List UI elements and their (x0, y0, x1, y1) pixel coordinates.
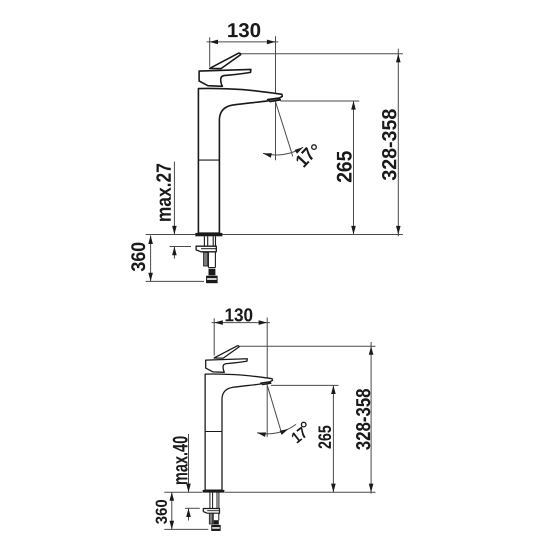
arrow 130 left (209, 40, 218, 45)
arrow arc left bottom (257, 432, 266, 437)
arrow arc left (263, 153, 272, 157)
dim text 360 bottom (156, 500, 167, 524)
arrow max.40 up (186, 508, 191, 517)
degree circle bottom (301, 422, 306, 427)
threaded stud bottom (hatched) (209, 513, 212, 524)
wire ext right 130 bottom / angle ref (266, 318, 268, 437)
wire max.40 upper shaft (188, 434, 190, 492)
shank tube lines (204, 236, 215, 246)
dim text 360 top (131, 243, 145, 272)
wire max.27 lower level (170, 246, 192, 248)
arrow 360 up (148, 235, 153, 244)
arrow 130 left bottom (214, 320, 223, 325)
wire angle slant 17deg (276, 103, 293, 157)
arrow 328-358 up bottom (369, 346, 374, 355)
angle arc bottom (257, 424, 296, 433)
dim text 328-358 top (382, 109, 396, 180)
arrow 265 up bottom (331, 385, 336, 394)
fork washer bottom (203, 509, 219, 514)
wire countertop right bottom (225, 491, 376, 493)
hose end fitting (207, 276, 218, 283)
wire max.40 lower shaft (188, 508, 190, 520)
mounting hardware top view (204, 236, 215, 246)
wire angle slant bottom (267, 386, 281, 434)
arrow 328-358 up (396, 54, 401, 63)
faucet top view (195, 53, 282, 236)
wire countertop left bottom (164, 491, 202, 493)
wire max.27 lower shaft (173, 247, 175, 259)
arrow 328-358 down bottom (369, 484, 374, 493)
wire max.27 upper shaft (173, 162, 175, 235)
shank tube lines bottom (210, 492, 219, 508)
wire ext left 130 bottom (213, 318, 215, 355)
wire countertop left (146, 234, 196, 236)
arrow 328-358 down (396, 226, 401, 235)
faucet bottom view (scaled reuse) (203, 346, 273, 493)
dim text 265 top (337, 151, 352, 182)
wire ext left 130 (209, 37, 211, 67)
arrow max.27 down (172, 226, 177, 235)
wire dim line 360 (150, 235, 152, 281)
dim text 130 top (228, 23, 260, 37)
wire top level line bottom (239, 345, 375, 347)
fork washer (196, 246, 216, 252)
dim text 17 deg bottom (292, 427, 306, 444)
hose end fitting bottom (212, 525, 221, 530)
hose tube (208, 252, 215, 267)
arrow 265 up (351, 101, 356, 110)
dim text max.40 (173, 436, 188, 484)
wire top level line (241, 53, 403, 55)
wire dim line 328-358 (397, 49, 399, 237)
hose nut bottom (213, 520, 219, 524)
wire max.40 lower level (185, 507, 200, 509)
dim text 17 deg top (297, 147, 314, 168)
arrow 130 right (267, 40, 276, 45)
threaded stud (hatched) (204, 252, 208, 266)
hose nut (209, 269, 216, 276)
arrow 265 down bottom (331, 484, 336, 493)
arrow 130 right bottom (259, 320, 268, 325)
arrow 360 down (148, 273, 153, 282)
wire dim line 328-358 bottom (370, 342, 372, 494)
arrow max.40 down (186, 484, 191, 493)
degree circle top (312, 145, 317, 150)
hose tube bottom (213, 513, 219, 520)
wire dim line 360 bottom (171, 492, 173, 529)
wire ext 265 level bottom (271, 384, 339, 386)
dim text 328-358 bottom (356, 389, 370, 450)
arrow arc right (295, 147, 304, 153)
arrow 265 down (351, 226, 356, 235)
dim text 130 bottom (226, 308, 253, 321)
dim text max.27 (156, 164, 171, 221)
mounting hardware bottom view (210, 492, 219, 508)
wire ext 265 level (280, 100, 359, 102)
angle arc (263, 147, 303, 155)
arrow 360 down bottom (170, 521, 175, 530)
wire countertop right (223, 234, 403, 236)
dim text 265 bottom (318, 426, 331, 449)
wire dim line 265 bottom (332, 385, 334, 492)
wire dim line 265 (353, 101, 355, 235)
arrow arc right bottom (280, 429, 289, 435)
wire dim line 130 top (207, 41, 279, 43)
wire hose end level bottom (164, 528, 208, 530)
arrow 360 up bottom (170, 492, 175, 501)
arrow max.27 up (172, 247, 177, 256)
wire dim line 130 bottom (212, 322, 270, 324)
wire ext right 130 / angle vertical ref (275, 36, 277, 160)
wire hose end level (146, 280, 204, 282)
